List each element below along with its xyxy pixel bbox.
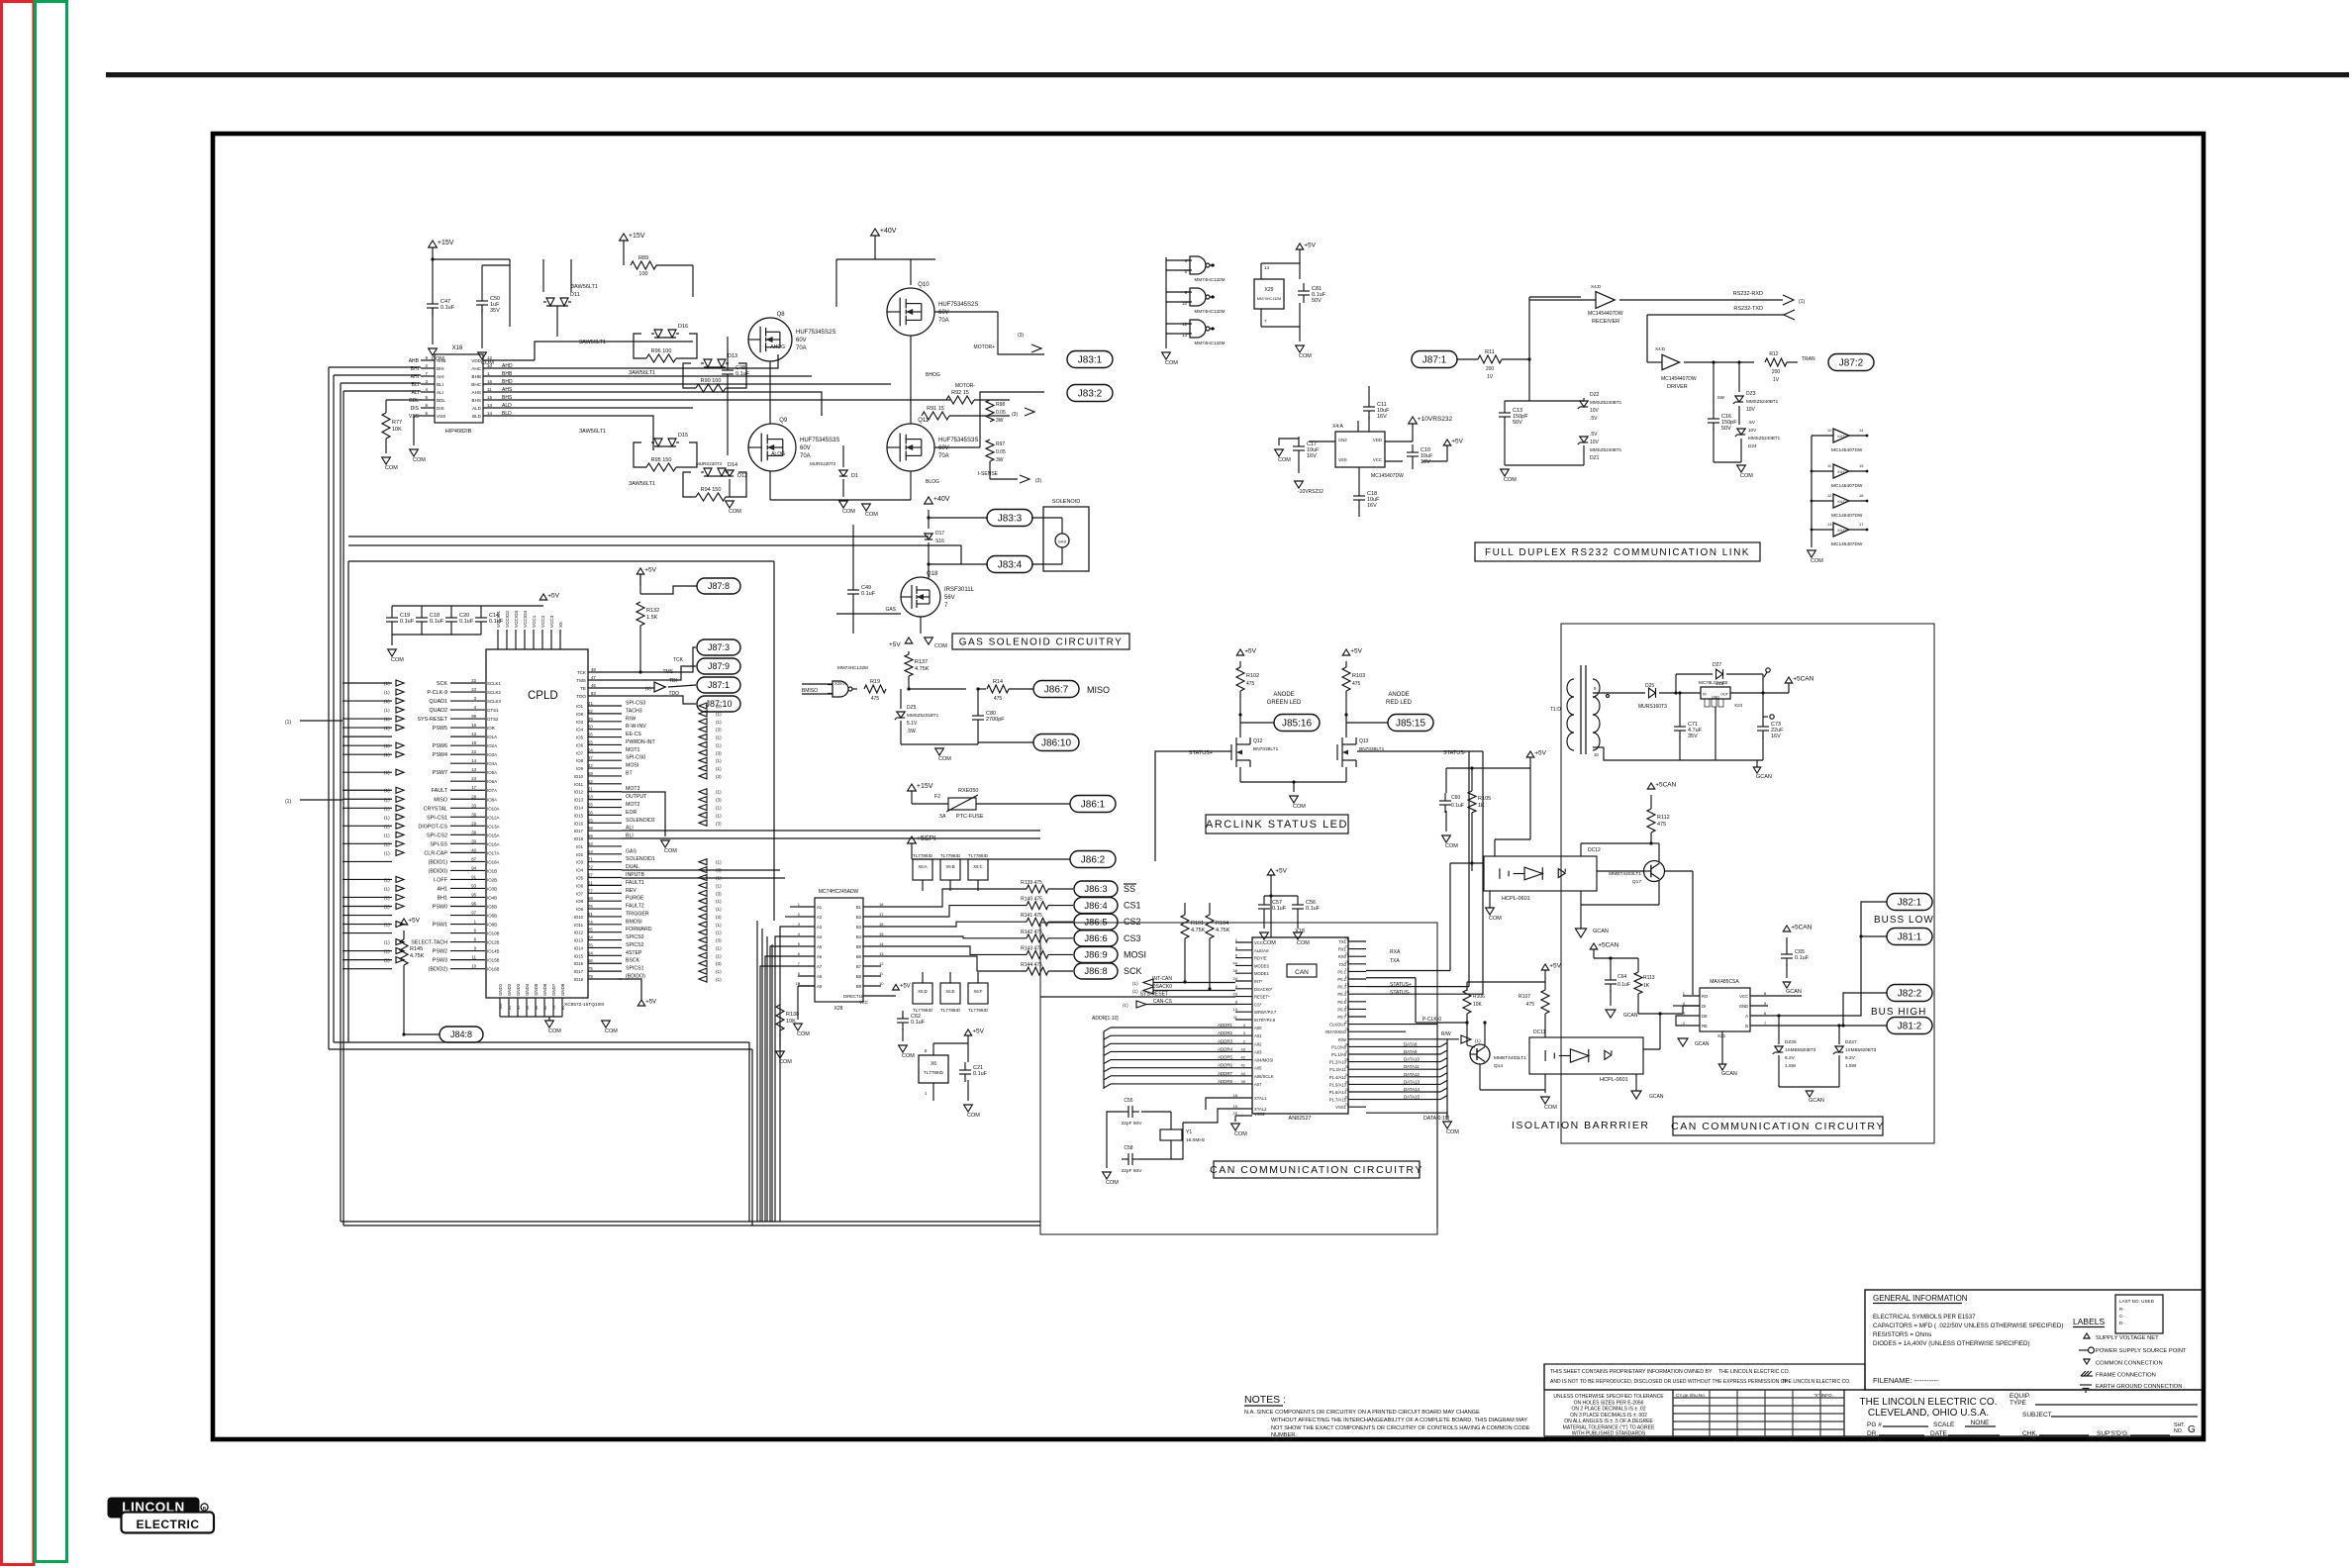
svg-text:GND1: GND1 <box>498 983 503 996</box>
svg-text:GAS: GAS <box>1058 539 1067 544</box>
svg-text:D24: D24 <box>1748 443 1757 448</box>
svg-text:R143 475: R143 475 <box>1021 945 1042 951</box>
svg-text:X6:A: X6:A <box>918 864 927 869</box>
svg-text:B2: B2 <box>856 915 862 920</box>
svg-text:(1): (1) <box>384 824 390 829</box>
svg-text:J86:1: J86:1 <box>1081 799 1106 810</box>
svg-text:SYS-RESET: SYS-RESET <box>417 717 447 723</box>
svg-text:PSW0: PSW0 <box>433 905 447 911</box>
svg-text:R103: R103 <box>1352 673 1365 679</box>
svg-text:A1: A1 <box>817 905 823 910</box>
svg-text:41: 41 <box>588 701 593 706</box>
svg-text:COM: COM <box>1740 473 1753 479</box>
svg-text:(1): (1) <box>384 850 390 855</box>
svg-text:1V: 1V <box>1773 377 1780 383</box>
svg-text:2: 2 <box>798 912 801 917</box>
svg-text:(1): (1) <box>1475 1038 1481 1043</box>
svg-text:D- .: D- . <box>2119 1321 2126 1325</box>
svg-text:MOT2: MOT2 <box>626 802 640 808</box>
svg-text:475: 475 <box>1246 681 1255 687</box>
svg-text:(1): (1) <box>384 949 390 954</box>
svg-text:(1): (1) <box>716 742 722 747</box>
svg-text:COM: COM <box>1106 1180 1119 1186</box>
svg-text:COM: COM <box>1165 360 1178 366</box>
svg-text:TL7786ID: TL7786ID <box>913 1008 933 1013</box>
svg-text:TDO: TDO <box>576 694 586 699</box>
svg-text:BLOG: BLOG <box>926 479 939 485</box>
svg-text:(1): (1) <box>1799 299 1805 305</box>
svg-text:R/W: R/W <box>626 716 636 722</box>
svg-text:39: 39 <box>471 830 476 834</box>
svg-text:R97: R97 <box>996 441 1005 447</box>
svg-text:85: 85 <box>588 928 593 932</box>
svg-text:13: 13 <box>1345 966 1350 971</box>
svg-text:IO8B: IO8B <box>487 923 497 928</box>
svg-text:IO6A: IO6A <box>487 779 497 784</box>
svg-text:INT-CAN: INT-CAN <box>1152 976 1172 982</box>
svg-text:CAN COMMUNICATION CIRCUITRY: CAN COMMUNICATION CIRCUITRY <box>1671 1121 1885 1132</box>
svg-text:13: 13 <box>879 951 884 956</box>
svg-text:(1): (1) <box>716 883 722 888</box>
svg-text:17: 17 <box>471 785 476 790</box>
svg-text:MOT1: MOT1 <box>626 747 640 753</box>
svg-text:3: 3 <box>1243 1030 1246 1035</box>
svg-text:R112: R112 <box>1657 815 1670 821</box>
svg-text:J86:7: J86:7 <box>1044 684 1069 695</box>
svg-text:56: 56 <box>588 810 593 815</box>
svg-text:NOT SHOW THE EXACT COMPONENTS: NOT SHOW THE EXACT COMPONENTS OR CIRCUIT… <box>1271 1425 1530 1431</box>
svg-text:DZ2: DZ2 <box>1590 392 1600 398</box>
svg-text:HUF75345S2S: HUF75345S2S <box>938 302 978 308</box>
svg-text:PG #: PG # <box>1867 1421 1882 1428</box>
svg-text:10V: 10V <box>1746 407 1756 413</box>
svg-text:ADDR[1:10]: ADDR[1:10] <box>1092 1016 1119 1022</box>
svg-text:3: 3 <box>1683 1011 1686 1016</box>
svg-text:BMOSI: BMOSI <box>626 919 642 925</box>
svg-text:2: 2 <box>1243 1038 1246 1043</box>
svg-text:5: 5 <box>1764 1001 1767 1006</box>
svg-text:3AW56LT1: 3AW56LT1 <box>629 370 655 376</box>
svg-text:11: 11 <box>879 971 884 976</box>
svg-text:62: 62 <box>543 1006 547 1010</box>
svg-text:I-SENSE: I-SENSE <box>978 471 999 477</box>
svg-text:10K: 10K <box>392 427 402 433</box>
svg-text:IO8A: IO8A <box>487 797 497 802</box>
svg-text:28: 28 <box>1345 1027 1350 1031</box>
svg-text:J84:8: J84:8 <box>450 1029 472 1039</box>
svg-text:CS2: CS2 <box>1124 917 1141 927</box>
svg-text:RS232-RXD: RS232-RXD <box>1733 291 1763 297</box>
svg-text:23: 23 <box>471 687 476 692</box>
svg-text:AHOG: AHOG <box>770 344 785 350</box>
svg-text:GAS: GAS <box>626 848 637 854</box>
svg-text:12: 12 <box>487 355 493 360</box>
svg-text:VCC: VCC <box>1373 457 1382 462</box>
svg-text:0.1uF: 0.1uF <box>1272 906 1287 912</box>
svg-text:GTS2: GTS2 <box>487 717 499 722</box>
svg-text:BUS HIGH: BUS HIGH <box>1871 1007 1926 1018</box>
svg-text:(1): (1) <box>716 860 722 865</box>
svg-text:RS232-TXD: RS232-TXD <box>1733 306 1763 312</box>
svg-text:15: 15 <box>879 931 884 936</box>
svg-text:A8: A8 <box>817 974 823 979</box>
svg-text:IO7: IO7 <box>576 891 584 896</box>
svg-text:+5V: +5V <box>1451 438 1463 444</box>
svg-text:43: 43 <box>1241 1046 1246 1051</box>
svg-text:SOLENOID2: SOLENOID2 <box>626 818 655 824</box>
svg-text:+5V: +5V <box>972 1028 984 1034</box>
svg-text:D17: D17 <box>935 531 944 537</box>
svg-text:D16: D16 <box>678 324 688 330</box>
svg-text:COM: COM <box>1297 940 1310 946</box>
svg-text:5: 5 <box>425 395 428 400</box>
svg-text:DATA15: DATA15 <box>1404 1095 1420 1100</box>
svg-text:3: 3 <box>798 922 801 927</box>
svg-text:R- .: R- . <box>2119 1307 2126 1312</box>
svg-text:B3: B3 <box>856 925 862 930</box>
svg-text:IO8: IO8 <box>576 899 584 904</box>
svg-text:40: 40 <box>1241 1071 1246 1076</box>
svg-text:50: 50 <box>588 725 593 730</box>
svg-text:(1): (1) <box>716 758 722 763</box>
svg-text:IO9: IO9 <box>576 766 584 771</box>
svg-text:52: 52 <box>588 779 593 784</box>
svg-text:B9: B9 <box>856 984 862 989</box>
svg-text:COM: COM <box>938 756 951 762</box>
svg-text:(3): (3) <box>1012 412 1018 418</box>
svg-text:64: 64 <box>588 849 593 854</box>
svg-text:68: 68 <box>588 896 593 901</box>
svg-text:CRYSTAL: CRYSTAL <box>424 806 447 812</box>
svg-text:(BDID1): (BDID1) <box>429 859 448 865</box>
svg-text:X4:D: X4:D <box>1837 469 1846 474</box>
svg-text:BUSS LOW: BUSS LOW <box>1874 915 1934 926</box>
svg-text:DRIVER: DRIVER <box>1667 384 1688 390</box>
svg-text:0.1uF: 0.1uF <box>430 619 444 625</box>
svg-text:VDD: VDD <box>1373 438 1382 442</box>
svg-text:GREEN LED: GREEN LED <box>1267 700 1302 706</box>
svg-text:IO3A: IO3A <box>487 752 497 757</box>
svg-text:91: 91 <box>471 874 476 879</box>
svg-text:6: 6 <box>1764 1011 1767 1016</box>
svg-text:J86:10: J86:10 <box>1041 737 1071 748</box>
svg-text:10V: 10V <box>1748 428 1757 433</box>
svg-text:IO6B: IO6B <box>487 914 497 919</box>
svg-text:BDL: BDL <box>409 398 419 404</box>
svg-text:R142 475: R142 475 <box>1021 930 1042 935</box>
svg-text:R138: R138 <box>786 1012 799 1018</box>
svg-text:ON ALL ANGLES IS ± .5 OF A DEG: ON ALL ANGLES IS ± .5 OF A DEGREE <box>1564 1419 1653 1424</box>
svg-text:MC145407DW: MC145407DW <box>1831 483 1863 489</box>
svg-text:0.1uF: 0.1uF <box>861 591 876 597</box>
svg-text:I-OFF: I-OFF <box>434 877 448 883</box>
svg-text:R145: R145 <box>410 946 423 952</box>
svg-text:GCAN: GCAN <box>1623 1013 1638 1019</box>
svg-text:20: 20 <box>1233 1111 1238 1116</box>
svg-text:SCLK3: SCLK3 <box>487 699 501 704</box>
svg-text:IO17: IO17 <box>574 969 584 974</box>
svg-text:94: 94 <box>471 865 476 870</box>
svg-text:IO2B: IO2B <box>487 877 497 882</box>
svg-text:19: 19 <box>796 981 801 986</box>
svg-text:19: 19 <box>1233 1104 1238 1109</box>
svg-text:MMSZ5240BT1: MMSZ5240BT1 <box>1590 447 1622 452</box>
svg-text:IO5A: IO5A <box>487 770 497 775</box>
svg-text:TE: TE <box>580 686 586 691</box>
svg-text:B: B <box>1745 1024 1748 1029</box>
svg-text:IO17A: IO17A <box>487 850 500 855</box>
svg-text:(3): (3) <box>716 821 722 826</box>
svg-text:THE LINCOLN ELECTRIC CO.: THE LINCOLN ELECTRIC CO. <box>1718 1369 1790 1375</box>
svg-text:(1): (1) <box>716 923 722 928</box>
svg-text:D14: D14 <box>728 462 737 468</box>
svg-text:ANODE: ANODE <box>1273 692 1294 698</box>
svg-text:TL7786ID: TL7786ID <box>940 1008 961 1013</box>
svg-text:(1): (1) <box>384 958 390 963</box>
svg-text:S16: S16 <box>935 539 944 544</box>
svg-text:MMSZ5240BT1: MMSZ5240BT1 <box>1748 436 1781 441</box>
svg-text:48: 48 <box>591 667 596 672</box>
svg-text:+5V: +5V <box>547 592 559 599</box>
svg-text:DC12: DC12 <box>1588 847 1601 853</box>
svg-text:MODE0: MODE0 <box>1254 963 1270 968</box>
svg-text:6.2V: 6.2V <box>1845 1055 1856 1061</box>
svg-text:COM: COM <box>1299 353 1312 359</box>
svg-text:ARCLINK STATUS LED: ARCLINK STATUS LED <box>1206 819 1348 831</box>
svg-text:18: 18 <box>1345 1004 1350 1009</box>
svg-text:0.1uF: 0.1uF <box>1451 803 1464 809</box>
svg-text:16V: 16V <box>1377 414 1387 420</box>
svg-text:MOSI: MOSI <box>626 763 638 769</box>
svg-text:J86:9: J86:9 <box>1084 950 1107 961</box>
svg-text:1K: 1K <box>1478 803 1485 809</box>
svg-text:GTS1: GTS1 <box>487 708 499 713</box>
svg-text:ANODE: ANODE <box>1388 692 1409 698</box>
svg-text:DATA11: DATA11 <box>1404 1064 1420 1069</box>
svg-text:PSW2: PSW2 <box>433 949 447 955</box>
svg-text:MC145407DW: MC145407DW <box>1831 513 1863 519</box>
svg-text:31: 31 <box>1345 1095 1350 1100</box>
svg-text:14: 14 <box>487 411 493 416</box>
svg-text:IO2A: IO2A <box>487 743 497 748</box>
svg-text:N.A. SINCE COMPONENTS OR CIR: N.A. SINCE COMPONENTS OR CIRCUITRY ON A … <box>1244 1410 1480 1416</box>
svg-text:IO12: IO12 <box>574 790 584 795</box>
svg-text:+5V: +5V <box>1304 242 1316 248</box>
svg-text:33: 33 <box>1345 1079 1350 1084</box>
svg-text:11: 11 <box>1827 463 1832 468</box>
svg-text:31: 31 <box>517 1006 521 1010</box>
svg-text:IO4: IO4 <box>576 868 584 873</box>
svg-text:1: 1 <box>925 1091 928 1096</box>
svg-text:+5SPI: +5SPI <box>917 835 935 842</box>
svg-text:IO11: IO11 <box>574 923 584 928</box>
svg-text:11: 11 <box>1233 1015 1238 1020</box>
svg-text:7: 7 <box>1347 1034 1350 1039</box>
svg-text:IO13: IO13 <box>574 798 584 803</box>
svg-text:DATA[0:15]: DATA[0:15] <box>1423 1116 1450 1122</box>
svg-text:76: 76 <box>588 904 593 909</box>
svg-text:"X" INFO.: "X" INFO. <box>1813 1393 1833 1398</box>
svg-text:GENERAL INFORMATION: GENERAL INFORMATION <box>1873 1294 1968 1303</box>
svg-text:IO1B: IO1B <box>487 868 497 873</box>
svg-text:42: 42 <box>1241 1055 1246 1060</box>
svg-text:QUAD1: QUAD1 <box>429 699 447 705</box>
svg-text:TCK: TCK <box>577 670 587 675</box>
svg-text:30: 30 <box>1345 1041 1350 1046</box>
svg-text:IO10B: IO10B <box>487 931 500 936</box>
svg-text:10: 10 <box>487 363 493 368</box>
svg-text:100: 100 <box>638 271 647 277</box>
svg-text:(1): (1) <box>384 699 390 704</box>
svg-text:DATE: DATE <box>1930 1430 1948 1437</box>
svg-text:R140 475: R140 475 <box>1021 897 1042 903</box>
svg-text:(3): (3) <box>716 728 722 733</box>
svg-text:-10VRS232: -10VRS232 <box>1298 489 1323 495</box>
svg-text:1: 1 <box>798 902 801 907</box>
svg-text:ALI: ALI <box>437 390 443 395</box>
svg-text:PSW1: PSW1 <box>433 923 447 929</box>
svg-text:COM: COM <box>934 643 947 649</box>
svg-text:GAS: GAS <box>885 607 896 613</box>
svg-text:55: 55 <box>588 739 593 744</box>
svg-text:10: 10 <box>1594 752 1599 757</box>
svg-text:J86:4: J86:4 <box>1084 901 1107 912</box>
svg-text:FAULT: FAULT <box>432 788 448 794</box>
svg-text:56: 56 <box>588 733 593 737</box>
svg-text:61: 61 <box>588 880 593 885</box>
svg-text:A04/MOSI: A04/MOSI <box>1254 1058 1273 1063</box>
svg-text:DATA8: DATA8 <box>1404 1041 1418 1046</box>
svg-text:Q12: Q12 <box>1253 738 1263 744</box>
svg-text:SPI-CS1: SPI-CS1 <box>427 815 447 821</box>
svg-text:PSW7: PSW7 <box>433 770 447 776</box>
svg-text:G: G <box>2188 1424 2196 1435</box>
svg-text:61: 61 <box>588 787 593 792</box>
svg-text:GND3: GND3 <box>516 983 521 996</box>
svg-text:(1): (1) <box>716 945 722 950</box>
svg-text:29: 29 <box>471 821 476 826</box>
svg-text:X6:B: X6:B <box>945 864 954 869</box>
svg-text:13: 13 <box>1827 522 1832 527</box>
svg-text:THIS SHEET CONTAINS PROPRIETAR: THIS SHEET CONTAINS PROPRIETARY INFORMAT… <box>1550 1369 1713 1375</box>
svg-text:BT: BT <box>626 770 633 776</box>
svg-text:(1): (1) <box>716 735 722 740</box>
svg-text:56: 56 <box>588 958 593 963</box>
svg-text:GND6: GND6 <box>542 983 547 996</box>
svg-text:IO1: IO1 <box>576 844 584 849</box>
svg-text:83: 83 <box>591 691 596 696</box>
svg-text:MM74HC132M: MM74HC132M <box>1195 309 1225 314</box>
svg-text:9: 9 <box>474 946 477 951</box>
svg-text:J85:15: J85:15 <box>1396 718 1425 729</box>
svg-text:70A: 70A <box>796 345 807 351</box>
svg-text:COM: COM <box>1504 477 1517 483</box>
svg-text:X29: X29 <box>1265 287 1274 293</box>
svg-text:TL7786ID: TL7786ID <box>940 853 961 858</box>
svg-text:93: 93 <box>471 883 476 888</box>
svg-text:ADDR4: ADDR4 <box>1218 1046 1232 1051</box>
svg-text:GCAN: GCAN <box>1756 774 1772 780</box>
svg-text:(1): (1) <box>384 752 390 757</box>
svg-text:(3): (3) <box>716 891 722 896</box>
svg-text:(1): (1) <box>384 717 390 722</box>
svg-text:IO10A: IO10A <box>487 806 500 811</box>
svg-text:64: 64 <box>588 841 593 846</box>
svg-text:(3): (3) <box>716 774 722 779</box>
svg-text:X4:D: X4:D <box>1837 499 1846 504</box>
svg-text:13: 13 <box>471 767 476 772</box>
svg-text:THE LINCOLN ELECTRIC CO.: THE LINCOLN ELECTRIC CO. <box>1860 1397 1998 1408</box>
svg-text:ON HOLES SIZES PER E-2056: ON HOLES SIZES PER E-2056 <box>1574 1400 1644 1406</box>
svg-text:X4:D: X4:D <box>1591 284 1602 289</box>
svg-text:SUBJECT: SUBJECT <box>2022 1412 2052 1419</box>
svg-text:A: A <box>1745 1014 1748 1019</box>
svg-text:IO3: IO3 <box>576 860 584 865</box>
svg-text:1V: 1V <box>1487 374 1494 380</box>
svg-text:MM74HC132M: MM74HC132M <box>1195 341 1225 345</box>
svg-text:EOR: EOR <box>626 810 637 816</box>
svg-text:15: 15 <box>487 395 493 400</box>
svg-text:GND8: GND8 <box>560 983 565 996</box>
svg-text:DZ1: DZ1 <box>1590 455 1600 461</box>
svg-text:16: 16 <box>1859 493 1864 498</box>
svg-text:55: 55 <box>588 833 593 838</box>
svg-text:VSS: VSS <box>437 414 445 419</box>
svg-text:MC1454407DW: MC1454407DW <box>1661 376 1697 382</box>
svg-text:RED LED: RED LED <box>1386 700 1413 706</box>
svg-text:2700pF: 2700pF <box>986 717 1005 723</box>
svg-text:CS*: CS* <box>1254 1002 1262 1007</box>
svg-text:DATA14: DATA14 <box>1404 1087 1420 1092</box>
svg-text:COM: COM <box>1263 940 1276 946</box>
svg-text:(3): (3) <box>716 704 722 709</box>
svg-text:GND5: GND5 <box>534 983 539 996</box>
svg-text:MMSZ5240BT1: MMSZ5240BT1 <box>1590 400 1622 405</box>
svg-text:Q17: Q17 <box>1632 879 1641 885</box>
svg-text:IO2: IO2 <box>576 852 584 857</box>
svg-text:14: 14 <box>1345 974 1350 979</box>
svg-text:8: 8 <box>1764 991 1767 996</box>
svg-text:(1): (1) <box>384 940 390 945</box>
svg-text:HUF75345S3S: HUF75345S3S <box>800 438 839 443</box>
svg-text:INT*: INT* <box>1254 979 1263 984</box>
svg-text:WRW*/P2.7: WRW*/P2.7 <box>1254 1010 1277 1015</box>
svg-text:COM: COM <box>729 509 741 515</box>
svg-text:475: 475 <box>871 696 880 702</box>
svg-text:D11: D11 <box>570 292 580 298</box>
svg-text:IO14: IO14 <box>574 806 584 811</box>
svg-text:21: 21 <box>508 1006 512 1010</box>
svg-text:36: 36 <box>1345 1057 1350 1062</box>
svg-text:23: 23 <box>1345 1102 1350 1107</box>
svg-text:1: 1 <box>1683 991 1686 996</box>
svg-text:8: 8 <box>425 403 428 408</box>
svg-text:VDD: VDD <box>471 358 481 363</box>
svg-text:18: 18 <box>879 902 884 907</box>
svg-text:PSW5: PSW5 <box>433 726 447 732</box>
svg-text:.5V: .5V <box>1590 432 1598 438</box>
svg-text:RECEIVER: RECEIVER <box>1592 319 1619 325</box>
svg-text:(3): (3) <box>1035 478 1041 484</box>
svg-text:0.05: 0.05 <box>996 410 1006 416</box>
svg-text:OUTPUT: OUTPUT <box>626 794 647 800</box>
svg-text:COM: COM <box>902 1053 915 1059</box>
svg-text:J82:1: J82:1 <box>1898 897 1922 908</box>
svg-text:+15V: +15V <box>917 783 933 790</box>
svg-text:MAX485CSA: MAX485CSA <box>1710 979 1739 985</box>
svg-text:67: 67 <box>588 872 593 877</box>
svg-text:COM: COM <box>385 465 398 471</box>
